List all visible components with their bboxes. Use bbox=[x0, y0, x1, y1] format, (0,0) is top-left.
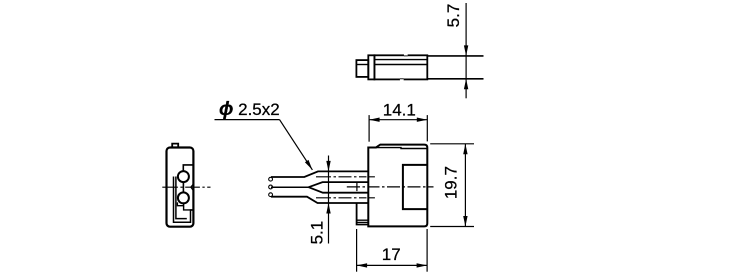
svg-text:14.1: 14.1 bbox=[383, 101, 416, 120]
svg-text:5.7: 5.7 bbox=[444, 4, 463, 28]
svg-text:ϕ 2.5x2: ϕ 2.5x2 bbox=[219, 99, 280, 120]
svg-text:19.7: 19.7 bbox=[441, 166, 460, 199]
svg-text:17: 17 bbox=[382, 245, 401, 264]
svg-text:5.1: 5.1 bbox=[308, 221, 327, 245]
